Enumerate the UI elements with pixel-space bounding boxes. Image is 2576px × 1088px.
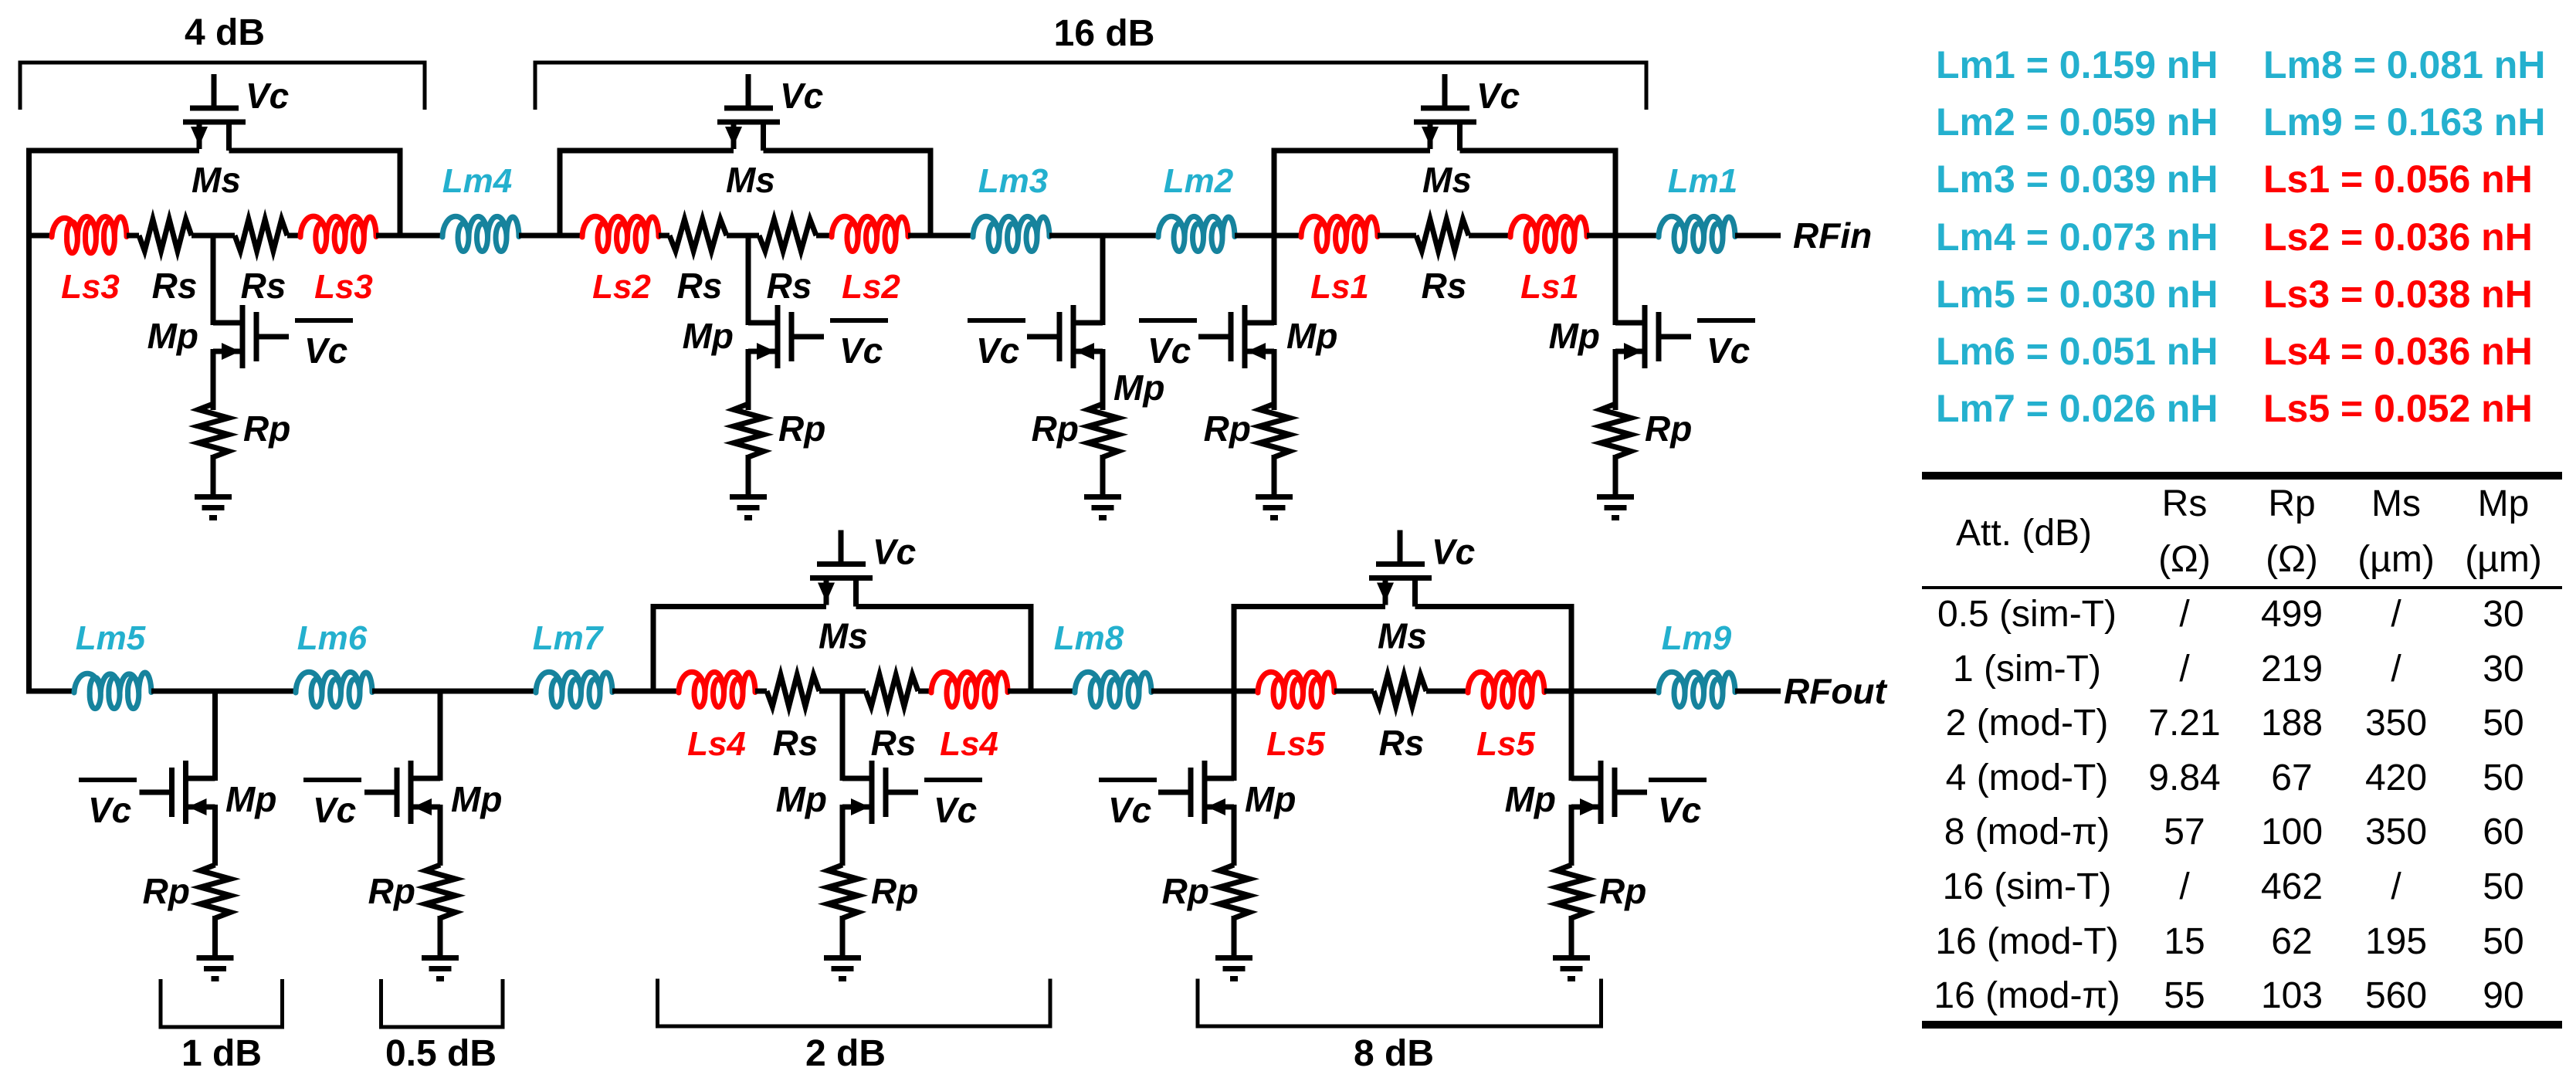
- inductor Lm1: [1659, 216, 1735, 251]
- svg-text:Mp: Mp: [451, 779, 502, 819]
- svg-text:Lm6: Lm6: [297, 619, 368, 657]
- overline of Vc (16 dB mod-pi left Mp): [1139, 318, 1197, 323]
- svg-text:Lm3: Lm3: [978, 162, 1048, 200]
- svg-text:16 (sim-T): 16 (sim-T): [1943, 866, 2112, 907]
- overline of Vc (8 dB left Mp): [1099, 778, 1157, 782]
- wire Ms bracket left segment (8 dB): [1232, 604, 1386, 609]
- svg-text:100: 100: [2261, 812, 2323, 852]
- svg-text:Lm3 = 0.039 nH: Lm3 = 0.039 nH: [1936, 158, 2218, 201]
- svg-text:Lm8 = 0.081 nH: Lm8 = 0.081 nH: [2263, 43, 2545, 86]
- svg-text:Lm1 = 0.159 nH: Lm1 = 0.159 nH: [1936, 43, 2218, 86]
- wire Ms bracket left leg (16 dB mod-T): [558, 151, 563, 236]
- svg-text:57: 57: [2164, 812, 2205, 852]
- svg-text:Vc: Vc: [1432, 532, 1475, 572]
- wire Rp to ground (16 dB mod-pi right): [1613, 455, 1618, 497]
- svg-text:Rs: Rs: [767, 266, 812, 306]
- svg-text:Att. (dB): Att. (dB): [1956, 513, 2092, 554]
- svg-text:Vc: Vc: [976, 330, 1019, 371]
- svg-text:Lm2: Lm2: [1164, 162, 1234, 200]
- inductor Lm7: [536, 672, 612, 707]
- svg-text:350: 350: [2365, 812, 2427, 852]
- svg-text:Mp: Mp: [147, 316, 198, 356]
- svg-text:Rp: Rp: [1204, 408, 1251, 449]
- svg-text:Vc: Vc: [88, 790, 131, 830]
- svg-text:195: 195: [2365, 921, 2427, 962]
- resistor Rs (right, 4 dB): [235, 219, 287, 251]
- ground (4 dB): [195, 494, 232, 520]
- wire Ms bracket left segment (2 dB): [651, 604, 827, 609]
- wire segment: [816, 233, 832, 239]
- svg-text:Rp: Rp: [243, 408, 290, 449]
- wire segment: [1235, 233, 1301, 239]
- table mid rule: [1922, 586, 2562, 589]
- svg-text:Ms: Ms: [819, 616, 868, 656]
- wire segment: [755, 689, 767, 694]
- resistor Rs (left, 2 dB): [767, 675, 819, 707]
- wire Ms bracket right segment (16 dB mod-pi): [1460, 148, 1618, 154]
- wire segment: [1426, 689, 1468, 694]
- svg-text:55: 55: [2164, 975, 2205, 1016]
- wire Ms bracket right leg (4 dB): [398, 151, 403, 236]
- svg-text:Rs: Rs: [1422, 266, 1467, 306]
- svg-text:188: 188: [2261, 703, 2323, 744]
- wire Ms bracket right segment (16 dB mod-T): [764, 148, 934, 154]
- svg-text:Ls4: Ls4: [940, 725, 998, 763]
- attenuation bracket 16 dB: [535, 63, 1646, 110]
- inductor Lm4: [442, 216, 519, 251]
- inductor Ls1 (right): [1510, 216, 1587, 251]
- svg-text:4 dB: 4 dB: [185, 12, 265, 53]
- transistor Mp (2 dB shunt): [842, 691, 918, 866]
- inductor Ls4 (right): [931, 672, 1008, 707]
- wire segment: [519, 233, 583, 239]
- svg-text:/: /: [2179, 594, 2190, 635]
- wire Ms bracket right leg (16 dB mod-T): [928, 151, 934, 236]
- resistor Rs (left, 16 dB mod-T): [669, 219, 727, 251]
- wire segment: [918, 689, 931, 694]
- wire segment: [1334, 689, 1374, 694]
- overline of Vc (16 dB mod-pi right Mp): [1697, 318, 1755, 323]
- ground (16 dB mod-T): [730, 494, 767, 520]
- wire left vertical bus: [26, 148, 32, 691]
- wire Ms bracket right segment (8 dB): [1415, 604, 1574, 609]
- resistor Rp (8 dB right): [1557, 865, 1587, 918]
- transistor Mp (16 dB mod-T shunt): [748, 236, 824, 410]
- resistor Rs (8 dB): [1374, 675, 1426, 707]
- svg-text:Ls5: Ls5: [1476, 725, 1535, 763]
- svg-text:Rp: Rp: [2268, 483, 2315, 524]
- svg-text:/: /: [2179, 866, 2190, 907]
- svg-text:Vc: Vc: [1476, 76, 1520, 116]
- wire Ms bracket left segment (16 dB mod-pi): [1272, 148, 1431, 154]
- resistor Rp (16 dB mod-pi right): [1601, 404, 1631, 457]
- svg-text:103: 103: [2261, 975, 2323, 1016]
- svg-text:Vc: Vc: [1707, 330, 1750, 371]
- wire segment: [1587, 233, 1659, 239]
- inductor Ls5 (right): [1468, 672, 1544, 707]
- svg-text:Lm7: Lm7: [533, 619, 605, 657]
- wire segment RF line: [26, 233, 52, 239]
- wire segment: [908, 233, 973, 239]
- ground (16 dB mod-pi right): [1597, 494, 1634, 520]
- svg-text:Ls1: Ls1: [1310, 268, 1369, 306]
- svg-text:1 (sim-T): 1 (sim-T): [1953, 649, 2101, 690]
- inductor Ls1 (left): [1301, 216, 1378, 251]
- wire Rp to ground (4 dB): [211, 455, 216, 497]
- svg-text:/: /: [2391, 594, 2401, 635]
- svg-text:Vc: Vc: [1108, 790, 1151, 830]
- svg-text:50: 50: [2483, 703, 2523, 744]
- overline of Vc (2 dB Mp): [924, 778, 982, 782]
- resistor Rp (16 dB mod-T): [734, 404, 764, 457]
- inductor Lm9: [1659, 672, 1735, 707]
- wire segment: [1469, 233, 1510, 239]
- resistor Rp (0.5 dB): [425, 865, 456, 918]
- svg-text:Ls5: Ls5: [1266, 725, 1325, 763]
- table row 16 (sim-T): [1943, 866, 2524, 907]
- svg-text:2 (mod-T): 2 (mod-T): [1946, 703, 2109, 744]
- wire Ms bracket right leg (16 dB mod-pi): [1613, 151, 1618, 325]
- wire Rp to ground (16 dB mod-pi left): [1272, 455, 1277, 497]
- svg-text:219: 219: [2261, 649, 2323, 690]
- inductor Ls2 (right): [832, 216, 908, 251]
- resistor Rp (16 dB mod-pi left): [1259, 404, 1290, 457]
- svg-text:Ls1 = 0.056 nH: Ls1 = 0.056 nH: [2263, 158, 2533, 201]
- resistor Rp (8 dB left): [1219, 865, 1249, 918]
- wire Ms bracket left leg (2 dB): [651, 607, 656, 692]
- svg-text:4 (mod-T): 4 (mod-T): [1946, 758, 2109, 798]
- svg-text:Vc: Vc: [246, 76, 289, 116]
- table row 0.5 (sim-T): [1937, 594, 2524, 635]
- wire segment with node (16 dB T): [727, 233, 759, 239]
- attenuation bracket 0.5 dB: [381, 979, 503, 1027]
- transistor Mp (1 dB shunt): [140, 691, 215, 866]
- svg-text:Rs: Rs: [773, 723, 819, 763]
- svg-text:Ls2 = 0.036 nH: Ls2 = 0.036 nH: [2263, 215, 2533, 259]
- wire Ms bracket right leg (2 dB): [1029, 607, 1034, 692]
- svg-text:350: 350: [2365, 703, 2427, 744]
- transistor Mp (8 dB right shunt): [1571, 761, 1647, 866]
- transistor Ms (16 dB mod-T): [717, 74, 780, 151]
- svg-text:Mp: Mp: [776, 779, 827, 819]
- wire Rp to ground (8 dB left): [1232, 916, 1237, 958]
- inductor Ls2 (left): [582, 216, 659, 251]
- svg-text:Rp: Rp: [778, 408, 825, 449]
- svg-text:Lm9: Lm9: [1662, 619, 1732, 657]
- svg-text:Rs: Rs: [241, 266, 286, 306]
- transistor Mp (0.5 dB shunt): [364, 691, 440, 866]
- wire RFin stub: [1735, 233, 1781, 239]
- svg-text:499: 499: [2261, 594, 2323, 635]
- wire Ms bracket right segment (4 dB): [229, 148, 403, 154]
- svg-text:Mp: Mp: [1245, 779, 1296, 819]
- svg-text:Ls2: Ls2: [592, 268, 651, 306]
- attenuation bracket 4 dB: [20, 63, 425, 110]
- overline of Vc (16 dB mod-T Mp): [830, 318, 888, 323]
- svg-text:/: /: [2179, 649, 2190, 690]
- svg-text:60: 60: [2483, 812, 2523, 852]
- ground (2 dB): [824, 955, 861, 981]
- wire segment RFout line: [26, 689, 74, 694]
- resistor Rp (1 dB): [201, 865, 231, 918]
- svg-text:Ms: Ms: [1422, 160, 1472, 200]
- inductor Ls5 (left): [1258, 672, 1334, 707]
- inductor Lm6: [296, 672, 372, 707]
- svg-text:Rp: Rp: [1645, 408, 1692, 449]
- svg-text:Rp: Rp: [1032, 408, 1079, 449]
- transistor Mp (16 dB mod-pi left shunt): [1198, 305, 1274, 410]
- wire segment: [1008, 689, 1075, 694]
- svg-text:Vc: Vc: [839, 330, 883, 371]
- svg-text:Vc: Vc: [304, 330, 347, 371]
- wire Ms bracket left segment (16 dB mod-T): [558, 148, 734, 154]
- svg-text:Rs: Rs: [152, 266, 198, 306]
- wire Rp to ground (2 dB): [840, 916, 846, 958]
- svg-text:30: 30: [2483, 594, 2523, 635]
- svg-text:Ls3: Ls3: [61, 268, 120, 306]
- table row 16 (mod-&#960;): [1934, 975, 2523, 1016]
- svg-text:Ls3: Ls3: [314, 268, 373, 306]
- svg-text:Ms: Ms: [1378, 616, 1427, 656]
- svg-text:Mp: Mp: [1113, 368, 1164, 408]
- ground (16 dB sim-T): [1084, 494, 1121, 520]
- resistor Rs (right, 2 dB): [866, 675, 918, 707]
- attenuation bracket 2 dB: [658, 979, 1051, 1027]
- wire Rp to ground (8 dB right): [1569, 916, 1574, 958]
- transistor Mp (16 dB mod-pi right shunt): [1615, 305, 1691, 410]
- svg-text:16 (mod-π): 16 (mod-π): [1934, 975, 2120, 1016]
- svg-text:420: 420: [2365, 758, 2427, 798]
- ground (0.5 dB): [422, 955, 459, 981]
- table row 1 (sim-T): [1953, 649, 2524, 690]
- ground (8 dB right): [1553, 955, 1590, 981]
- svg-text:Lm4 = 0.073 nH: Lm4 = 0.073 nH: [1936, 215, 2218, 259]
- svg-text:8 (mod-π): 8 (mod-π): [1944, 812, 2110, 852]
- svg-text:Vc: Vc: [1658, 790, 1701, 830]
- svg-text:Ls4: Ls4: [687, 725, 746, 763]
- overline of Vc (16 dB sim-T Mp): [968, 318, 1025, 323]
- transistor Mp (4 dB shunt): [213, 236, 289, 410]
- svg-text:Lm9 = 0.163 nH: Lm9 = 0.163 nH: [2263, 100, 2545, 144]
- wire segment: [659, 233, 669, 239]
- wire segment: [1378, 233, 1416, 239]
- wire segment with node (1 dB): [151, 689, 296, 694]
- svg-text:Ls4 = 0.036 nH: Ls4 = 0.036 nH: [2263, 330, 2533, 373]
- svg-text:(Ω): (Ω): [2158, 539, 2211, 580]
- svg-text:Vc: Vc: [873, 532, 916, 572]
- resistor Rp (4 dB): [198, 404, 229, 457]
- svg-text:Vc: Vc: [313, 790, 356, 830]
- svg-text:Lm2 = 0.059 nH: Lm2 = 0.059 nH: [1936, 100, 2218, 144]
- wire Rp to ground (1 dB): [212, 916, 218, 958]
- inductor Lm3: [973, 216, 1049, 251]
- overline of Vc (8 dB right Mp): [1649, 778, 1707, 782]
- transistor Mp (8 dB left shunt): [1158, 761, 1234, 866]
- transistor Ms (8 dB): [1369, 530, 1432, 607]
- svg-text:Vc: Vc: [1147, 330, 1191, 371]
- svg-text:(µm): (µm): [2357, 539, 2435, 580]
- svg-text:15: 15: [2164, 921, 2205, 962]
- svg-text:Ls5 = 0.052 nH: Ls5 = 0.052 nH: [2263, 387, 2533, 430]
- transistor Ms (4 dB): [183, 74, 246, 151]
- svg-text:Ms: Ms: [192, 160, 241, 200]
- transistor Ms (2 dB): [810, 530, 873, 607]
- svg-text:50: 50: [2483, 758, 2523, 798]
- svg-text:0.5 (sim-T): 0.5 (sim-T): [1937, 594, 2117, 635]
- svg-text:9.84: 9.84: [2148, 758, 2220, 798]
- svg-text:(µm): (µm): [2465, 539, 2542, 580]
- ground (1 dB): [197, 955, 234, 981]
- wire Ms bracket right segment (2 dB): [856, 604, 1034, 609]
- wire segment with node (4 dB T): [192, 233, 235, 239]
- svg-text:Rs: Rs: [2162, 483, 2208, 524]
- transistor Mp (16 dB sim-T shunt): [1027, 236, 1103, 410]
- svg-text:Rs: Rs: [871, 723, 917, 763]
- wire Ms bracket left segment (4 dB): [26, 148, 199, 154]
- svg-text:Mp: Mp: [225, 779, 276, 819]
- resistor Rs (16 dB mod-pi): [1416, 219, 1469, 251]
- table top rule: [1922, 472, 2562, 480]
- inductor Lm8: [1075, 672, 1151, 707]
- svg-text:RFout: RFout: [1784, 671, 1888, 711]
- svg-text:RFin: RFin: [1793, 215, 1872, 256]
- svg-text:Mp: Mp: [683, 316, 734, 356]
- svg-text:/: /: [2391, 866, 2401, 907]
- inductor Ls3 (right, 4 dB): [300, 216, 376, 251]
- table row 4 (mod-T): [1946, 758, 2524, 798]
- ground (8 dB left): [1215, 955, 1252, 981]
- ground (16 dB mod-pi left): [1256, 494, 1293, 520]
- svg-text:16 (mod-T): 16 (mod-T): [1935, 921, 2118, 962]
- inductor Lm5: [74, 673, 151, 709]
- wire Rp to ground (0.5 dB): [438, 916, 443, 958]
- wire segment with node (16 dB sim-T): [1049, 233, 1158, 239]
- svg-text:8 dB: 8 dB: [1354, 1033, 1434, 1074]
- svg-text:Ls3 = 0.038 nH: Ls3 = 0.038 nH: [2263, 273, 2533, 316]
- wire segment: [612, 689, 679, 694]
- svg-text:Ms: Ms: [726, 160, 775, 200]
- svg-text:Ls2: Ls2: [842, 268, 900, 306]
- overline of Vc (1 dB Mp): [79, 778, 137, 782]
- svg-text:Lm1: Lm1: [1668, 162, 1737, 200]
- svg-text:50: 50: [2483, 921, 2523, 962]
- wire RFout stub: [1735, 689, 1781, 694]
- svg-text:50: 50: [2483, 866, 2523, 907]
- svg-text:Ls1: Ls1: [1520, 268, 1579, 306]
- svg-text:462: 462: [2261, 866, 2323, 907]
- wire segment: [287, 233, 300, 239]
- wire Rp to ground (16 dB mod-T): [746, 455, 751, 497]
- svg-text:/: /: [2391, 649, 2401, 690]
- svg-text:Mp: Mp: [2478, 483, 2530, 524]
- overline of Vc (0.5 dB Mp): [303, 778, 361, 782]
- svg-text:Lm5: Lm5: [76, 619, 146, 657]
- svg-text:7.21: 7.21: [2148, 703, 2220, 744]
- table row 16 (mod-T): [1935, 921, 2523, 962]
- svg-text:1 dB: 1 dB: [181, 1033, 262, 1074]
- resistor Rp (16 dB sim-T): [1088, 404, 1118, 457]
- svg-text:16 dB: 16 dB: [1054, 13, 1155, 54]
- wire Ms bracket right leg (8 dB): [1569, 607, 1574, 781]
- resistor Rs (left, 4 dB): [139, 219, 192, 251]
- wire segment with node (0.5 dB): [372, 689, 536, 694]
- wire segment with node (2 dB T): [819, 689, 866, 694]
- wire Ms bracket left leg (16 dB mod-pi): [1272, 151, 1277, 325]
- overline of Vc (4 dB Mp): [295, 318, 353, 323]
- table bottom rule: [1922, 1021, 2562, 1029]
- svg-text:62: 62: [2271, 921, 2312, 962]
- svg-text:Mp: Mp: [1505, 779, 1556, 819]
- wire segment: [127, 233, 139, 239]
- svg-text:Vc: Vc: [780, 76, 823, 116]
- inductor Ls3 (left, 4 dB): [52, 217, 127, 253]
- svg-text:Vc: Vc: [934, 790, 977, 830]
- svg-text:Mp: Mp: [1549, 316, 1600, 356]
- svg-text:(Ω): (Ω): [2266, 539, 2318, 580]
- svg-text:Lm7 = 0.026 nH: Lm7 = 0.026 nH: [1936, 387, 2218, 430]
- attenuation bracket 1 dB: [161, 979, 283, 1027]
- svg-text:2 dB: 2 dB: [805, 1033, 886, 1074]
- svg-text:Rp: Rp: [1162, 871, 1209, 911]
- wire Rp to ground (16 dB sim-T): [1100, 455, 1106, 497]
- svg-text:Lm8: Lm8: [1054, 619, 1124, 657]
- table row 8 (mod-&#960;): [1944, 812, 2524, 852]
- svg-text:Lm6 = 0.051 nH: Lm6 = 0.051 nH: [1936, 330, 2218, 373]
- inductor Ls4 (left): [679, 672, 755, 707]
- svg-text:Mp: Mp: [1286, 316, 1337, 356]
- inductor Lm2: [1158, 216, 1235, 251]
- svg-text:67: 67: [2271, 758, 2312, 798]
- table row 2 (mod-T): [1946, 703, 2524, 744]
- svg-text:Lm4: Lm4: [442, 162, 512, 200]
- svg-text:Lm5 = 0.030 nH: Lm5 = 0.030 nH: [1936, 273, 2218, 316]
- svg-text:30: 30: [2483, 649, 2523, 690]
- svg-text:0.5 dB: 0.5 dB: [385, 1033, 497, 1074]
- wire segment: [1544, 689, 1659, 694]
- resistor Rs (right, 16 dB mod-T): [759, 219, 816, 251]
- svg-text:Rs: Rs: [677, 266, 723, 306]
- wire segment: [1151, 689, 1258, 694]
- svg-text:Ms: Ms: [2371, 483, 2421, 524]
- svg-text:Rp: Rp: [368, 871, 415, 911]
- svg-text:Rp: Rp: [143, 871, 190, 911]
- wire segment: [376, 233, 442, 239]
- svg-text:Rs: Rs: [1379, 723, 1425, 763]
- attenuation bracket 8 dB: [1198, 979, 1602, 1027]
- resistor Rp (2 dB): [828, 865, 858, 918]
- svg-text:Rp: Rp: [1599, 871, 1646, 911]
- svg-text:90: 90: [2483, 975, 2523, 1016]
- svg-text:560: 560: [2365, 975, 2427, 1016]
- svg-text:Rp: Rp: [871, 871, 918, 911]
- wire Ms bracket left leg (8 dB): [1232, 607, 1237, 781]
- transistor Ms (16 dB mod-pi): [1414, 74, 1476, 151]
